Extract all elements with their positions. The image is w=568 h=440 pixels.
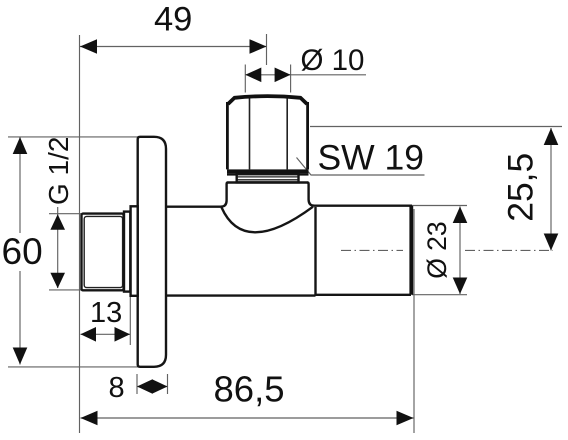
svg-text:25,5: 25,5 xyxy=(501,153,541,222)
svg-text:49: 49 xyxy=(154,0,192,38)
svg-text:Ø 23: Ø 23 xyxy=(422,221,452,278)
svg-text:G 1/2: G 1/2 xyxy=(43,137,74,205)
svg-text:8: 8 xyxy=(109,372,125,404)
svg-text:Ø 10: Ø 10 xyxy=(301,44,365,77)
svg-text:86,5: 86,5 xyxy=(214,369,285,410)
svg-text:SW 19: SW 19 xyxy=(318,137,425,177)
svg-text:13: 13 xyxy=(90,297,122,329)
svg-text:60: 60 xyxy=(2,231,43,272)
